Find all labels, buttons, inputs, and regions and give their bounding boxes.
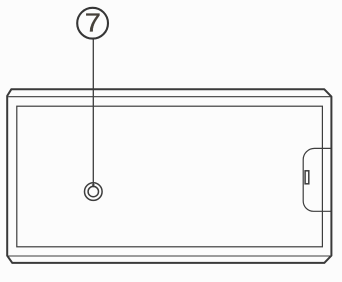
clip slot bbox=[305, 171, 309, 184]
leader line from callout 7 to camera bbox=[92, 40, 94, 187]
front face top edge line bbox=[8, 96, 331, 98]
camera inner circle bbox=[88, 186, 98, 196]
svg-text:7: 7 bbox=[85, 8, 101, 37]
leader arrowhead bbox=[92, 184, 95, 187]
screen inner rectangle bbox=[17, 106, 323, 247]
callout circle 7 bbox=[77, 8, 108, 39]
side clip / kickstand bbox=[303, 148, 330, 211]
camera outer circle bbox=[85, 183, 103, 201]
device outer housing outline bbox=[7, 89, 331, 263]
front face bottom edge line bbox=[8, 255, 331, 257]
